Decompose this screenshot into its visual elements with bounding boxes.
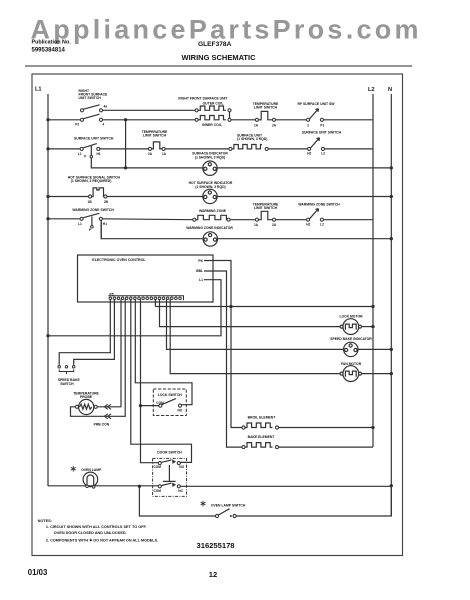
svg-text:L1: L1 <box>199 278 203 282</box>
motor M2 fan motor <box>340 366 361 382</box>
svg-text:2A: 2A <box>272 123 277 127</box>
thermal switch hot surface signal switch <box>90 188 105 197</box>
terminal lamp left <box>86 485 89 488</box>
wire speed bake indicator to N <box>358 348 391 350</box>
svg-text:H1: H1 <box>103 222 107 226</box>
terminal probe right <box>94 405 97 408</box>
terminal L2 row5 <box>320 218 323 221</box>
svg-text:PK: PK <box>198 259 203 263</box>
wire probe top lead <box>97 299 121 406</box>
terminal door bottom COM <box>158 485 161 488</box>
svg-text:LIMIT SWITCH: LIMIT SWITCH <box>254 206 278 210</box>
connector P5 terminal strip <box>109 297 181 300</box>
wire row1 L1 to switch <box>48 119 80 121</box>
wire row4 signal switch to indicator and N <box>107 196 391 198</box>
svg-text:LIMIT SWITCH: LIMIT SWITCH <box>254 105 278 109</box>
wire fan motor to L2... to N <box>361 373 391 375</box>
lamp oven lamp <box>83 472 98 487</box>
svg-text:PROBE: PROBE <box>80 395 93 399</box>
terminal lamp right <box>92 486 95 489</box>
wire speed bake indicator row <box>167 299 344 349</box>
wire row1 coils to temp limit <box>231 119 255 121</box>
terminal door top NO <box>177 462 180 465</box>
svg-text:GLEF378A: GLEF378A <box>198 41 232 48</box>
terminal outer coil right <box>228 109 231 112</box>
wire pk row to L2 <box>155 306 373 308</box>
wire door switch NO feed <box>131 299 192 462</box>
terminal door bottom NC <box>177 485 180 488</box>
svg-text:BAKE ELEMENT: BAKE ELEMENT <box>248 435 276 439</box>
terminal L1 row5 <box>80 217 83 220</box>
switch door switch box <box>153 458 187 496</box>
wire row6 warming indicator to N <box>101 222 391 239</box>
terminal lamp switch left <box>215 514 218 517</box>
lamp warming zone indicator row6 <box>203 232 217 246</box>
terminal 2A row5 <box>272 218 275 221</box>
switch surface unit switch right blade row2 <box>311 138 320 148</box>
svg-text:Publication No.: Publication No. <box>32 40 72 46</box>
svg-text:L1: L1 <box>35 87 42 93</box>
wire row1 upper pole to outer coil <box>103 109 196 111</box>
terminal broil right <box>275 426 278 429</box>
terminal 2 rf switch <box>307 118 310 121</box>
resistor bake element <box>245 443 273 448</box>
svg-text:P2: P2 <box>75 123 79 127</box>
terminal H2 row2 <box>308 147 311 150</box>
svg-text:(1 SHOWN, 3 RQD): (1 SHOWN, 3 RQD) <box>195 156 225 160</box>
schematic border frame <box>32 74 403 556</box>
lamp hot surface indicator row4 <box>203 189 217 203</box>
terminal H2 row5 <box>307 218 310 221</box>
wire row5 element to temp limit <box>230 219 255 221</box>
terminal row2 pole2 <box>90 155 93 158</box>
svg-text:SPEED BAKE INDICATOR: SPEED BAKE INDICATOR <box>330 337 372 341</box>
wire L1 stub to L1 bus <box>48 280 221 336</box>
terminal lock COM <box>159 404 162 407</box>
connector chevron probe top <box>104 404 111 409</box>
terminal P2 <box>80 118 83 121</box>
junction lamp switch pivot <box>230 515 232 517</box>
wire speed bake switch lead 1 <box>59 299 110 365</box>
resistor inner coil <box>198 116 226 120</box>
svg-text:H2: H2 <box>306 223 310 227</box>
switch surface unit switch blade row2 <box>83 144 97 148</box>
wire lock com tap <box>141 405 159 407</box>
svg-text:OVEN DOOR CLOSED AND UNLOCKED.: OVEN DOOR CLOSED AND UNLOCKED. <box>54 531 127 535</box>
switch lock switch box <box>153 389 186 416</box>
svg-text:FAN MOTOR: FAN MOTOR <box>341 362 362 366</box>
terminal outer coil left <box>195 109 198 112</box>
terminal L2 row2 <box>321 147 324 150</box>
bus L2 <box>372 94 374 447</box>
svg-text:L1: L1 <box>78 152 82 156</box>
svg-text:WIRING SCHEMATIC: WIRING SCHEMATIC <box>181 53 256 62</box>
wire row2 L1 to switch <box>48 148 80 150</box>
terminal 1B row4 <box>89 195 92 198</box>
wire PK stub to L2 and broil feed <box>204 261 242 428</box>
terminal P1 rf switch <box>320 118 323 121</box>
thermal switch temp limit row1 <box>257 111 272 119</box>
switch SW1 lower pole blade <box>84 114 100 119</box>
svg-text:316255178: 316255178 <box>197 541 235 550</box>
terminal warming element right <box>227 218 230 221</box>
svg-text:DOOR SWITCH: DOOR SWITCH <box>157 451 182 455</box>
svg-text:N: N <box>388 87 392 93</box>
wire lock com door com feed <box>141 299 159 462</box>
svg-text:L2: L2 <box>368 87 375 93</box>
svg-text:OVEN LAMP SWITCH: OVEN LAMP SWITCH <box>211 503 246 507</box>
wire L1 elbow oven lamp row <box>48 485 158 487</box>
wire lock motor row <box>160 299 341 326</box>
wire row3 indicator row to N <box>91 157 391 168</box>
svg-text:NC: NC <box>178 489 183 493</box>
switch oven lamp switch <box>219 509 230 515</box>
junction dots left bus <box>46 118 393 488</box>
switch warming zone switch blade <box>83 213 99 217</box>
svg-text:1A: 1A <box>254 223 259 227</box>
svg-text:2A: 2A <box>148 152 153 156</box>
ic U1 electronic oven control box <box>78 255 214 302</box>
connector chevron probe bottom <box>104 414 111 419</box>
switch rf surface unit sw blade <box>310 109 319 119</box>
svg-text:RIGHT FRONT SURFACE UNIT: RIGHT FRONT SURFACE UNIT <box>178 96 228 100</box>
wire lamp switch to N elbow <box>236 486 391 516</box>
wire lock motor to L2 <box>361 326 373 328</box>
resistor RT1 temperature probe <box>79 399 94 414</box>
resistor outer coil <box>198 106 226 110</box>
terminal inner coil right <box>228 118 231 121</box>
wire row1 temp limit to rf switch <box>276 119 307 121</box>
svg-text:PRB CON: PRB CON <box>94 422 110 426</box>
switch row2 second pole stub <box>90 146 92 155</box>
svg-text:1B: 1B <box>88 200 93 204</box>
svg-text:WARMING ZONE: WARMING ZONE <box>199 209 227 213</box>
title underline <box>25 65 412 67</box>
bus L1 <box>47 94 49 486</box>
terminal lamp switch right <box>233 514 236 517</box>
resistor warming zone element <box>196 215 229 219</box>
wire row1 rf switch to L2 <box>324 119 374 121</box>
wire row2 switch to L2 <box>325 148 373 150</box>
svg-text:RF SURFACE UNIT SW: RF SURFACE UNIT SW <box>298 102 336 106</box>
wire speed bake switch lead 2 <box>74 299 115 365</box>
wire row2 temp limit to element <box>165 148 229 150</box>
terminal H1 row2 <box>97 147 100 150</box>
wire row5 zone switch to L2 <box>324 219 374 221</box>
terminal pole2 row5 <box>91 226 94 229</box>
terminal upper left row1 <box>80 109 83 112</box>
wire coil join vertical <box>229 110 231 120</box>
switch speed bake switch <box>58 365 61 368</box>
terminal 1A row5 <box>255 218 258 221</box>
switch SW1 right front surface unit switch upper pole <box>84 105 100 109</box>
svg-text:LIMIT SWITCH: LIMIT SWITCH <box>143 134 167 138</box>
svg-text:L2: L2 <box>321 152 325 156</box>
wire row5 warming switch to element <box>103 218 193 221</box>
svg-text:(1 SHOWN, 3 REQUIRED): (1 SHOWN, 3 REQUIRED) <box>71 179 112 183</box>
wire row1 to row3 tie <box>125 120 127 168</box>
svg-text:1A: 1A <box>162 152 167 156</box>
svg-text:P: P <box>84 154 87 158</box>
wire fan motor row <box>170 299 340 373</box>
svg-text:1A: 1A <box>254 123 259 127</box>
svg-text:H1: H1 <box>97 152 101 156</box>
wire row2 element to unit switch <box>268 148 307 150</box>
svg-text:LOCK SWITCH: LOCK SWITCH <box>158 393 182 397</box>
svg-text:WARMING ZONE SWITCH: WARMING ZONE SWITCH <box>72 208 114 212</box>
svg-text:WARMING ZONE INDICATOR: WARMING ZONE INDICATOR <box>186 226 233 230</box>
svg-text:01/03: 01/03 <box>28 568 48 577</box>
wire row5 L1 to warming switch <box>48 218 80 220</box>
svg-text:2. COMPONENTS WITH ✳ DO NOT: 2. COMPONENTS WITH ✳ DO NOT APPEAR ON AL… <box>46 538 158 543</box>
lamp speed bake indicator <box>344 342 358 356</box>
bus N <box>390 94 392 516</box>
svg-text:INNER COIL: INNER COIL <box>202 123 222 127</box>
wire door switch middle tie <box>163 465 176 481</box>
svg-text:4a: 4a <box>104 104 108 108</box>
svg-text:WARMING ZONE SWITCH: WARMING ZONE SWITCH <box>298 202 340 206</box>
svg-text:4: 4 <box>103 123 105 127</box>
terminal element right row2 <box>265 147 268 150</box>
svg-text:2: 2 <box>307 124 309 128</box>
svg-text:5995384814: 5995384814 <box>32 48 66 54</box>
switch door top blade <box>162 460 175 463</box>
wire lock switch NO feed <box>135 299 192 404</box>
terminal inner coil left <box>195 118 198 121</box>
terminal broil left <box>242 426 245 429</box>
svg-text:COM: COM <box>154 465 162 469</box>
svg-text:AppliancePartsPros.com: AppliancePartsPros.com <box>31 14 419 44</box>
wire row1 lower pole to inner coil <box>103 119 196 121</box>
svg-text:H2: H2 <box>307 152 311 156</box>
terminal 2A temp limit row2 left <box>148 147 151 150</box>
terminal bake right <box>275 446 278 449</box>
terminal element left row2 <box>229 147 232 150</box>
terminal 4 <box>99 118 102 121</box>
wire door NC to N <box>180 485 391 487</box>
thermal switch temp limit row2 <box>151 142 162 149</box>
svg-text:COM: COM <box>154 489 162 493</box>
svg-text:NO: NO <box>179 465 184 469</box>
svg-text:BBL: BBL <box>196 269 203 273</box>
wire row4 L1 to signal switch <box>48 196 89 198</box>
svg-text:P1: P1 <box>320 124 324 128</box>
wire row2 switch to temp limit <box>100 148 150 150</box>
terminal 1A temp limit row2 right <box>162 147 165 150</box>
motor M1 lock motor <box>340 319 361 335</box>
resistor surface unit element row2 <box>232 145 262 149</box>
wire BBL stub to bake feed <box>204 271 242 447</box>
terminal 2A row1 <box>272 118 275 121</box>
wire probe bottom loop <box>71 299 126 416</box>
terminal 1A row1 <box>255 118 258 121</box>
terminal door top COM <box>158 462 161 465</box>
svg-text:NOTES:: NOTES: <box>38 519 52 523</box>
thermal switch temp limit row5 <box>257 211 272 219</box>
svg-text:2B: 2B <box>104 200 109 204</box>
lamp surface indicator row3 <box>203 161 217 175</box>
terminal L1 row2 <box>80 147 83 150</box>
wire H1 drop to row6 <box>100 220 102 238</box>
wire speed bake switch bar <box>59 370 73 375</box>
switch warming zone switch right blade <box>310 209 319 219</box>
svg-text:L1: L1 <box>78 222 82 226</box>
svg-text:OUTER COIL: OUTER COIL <box>203 101 224 105</box>
notes block <box>38 519 159 543</box>
svg-text:(1 SHOWN, 3 RQD): (1 SHOWN, 3 RQD) <box>195 185 225 189</box>
terminal H1 row5 <box>99 217 102 220</box>
svg-text:LOCK MOTOR: LOCK MOTOR <box>339 314 363 318</box>
svg-text:SWITCH: SWITCH <box>60 382 74 386</box>
svg-text:12: 12 <box>209 570 217 579</box>
label oven lamp with star <box>71 466 76 472</box>
svg-text:BROIL ELEMENT: BROIL ELEMENT <box>248 416 277 420</box>
svg-text:L2: L2 <box>320 223 324 227</box>
wire row5 temp limit to zone switch <box>276 219 307 221</box>
terminal 2B row4 <box>104 195 107 198</box>
svg-text:P: P <box>89 228 92 232</box>
terminal probe left <box>75 405 78 408</box>
wire broil element to L2 <box>279 427 374 429</box>
svg-text:ELECTRONIC OVEN CONTROL: ELECTRONIC OVEN CONTROL <box>92 258 146 262</box>
svg-text:SURFACE UNIT SWITCH: SURFACE UNIT SWITCH <box>74 136 114 140</box>
svg-text:2A: 2A <box>272 223 277 227</box>
terminal lock NO <box>178 404 181 407</box>
switch lock switch blade <box>162 399 176 405</box>
wire lamp switch row <box>139 486 215 516</box>
svg-text:NO: NO <box>178 409 183 413</box>
wire drop t12 <box>154 299 156 306</box>
svg-text:SURFACE UNIT SWITCH: SURFACE UNIT SWITCH <box>302 130 342 134</box>
svg-text:(1 SHOWN, 3 RQD): (1 SHOWN, 3 RQD) <box>237 137 267 141</box>
terminal bake left <box>242 446 245 449</box>
switch warming zone pole stub <box>91 217 93 226</box>
connector P5 terminal strip rail <box>108 296 183 301</box>
label oven lamp switch with star <box>201 501 206 507</box>
terminal warming element left <box>193 218 196 221</box>
wire bake element to L2 <box>279 446 374 448</box>
switch door bottom blade <box>162 483 175 486</box>
resistor broil element <box>245 423 273 428</box>
svg-text:1. CIRCUIT SHOWN WITH ALL CON: 1. CIRCUIT SHOWN WITH ALL CONTROLS SET T… <box>46 525 147 529</box>
svg-text:UNIT SWITCH: UNIT SWITCH <box>79 96 102 100</box>
terminal 4a <box>99 109 102 112</box>
svg-text:OVEN LAMP: OVEN LAMP <box>81 468 102 472</box>
